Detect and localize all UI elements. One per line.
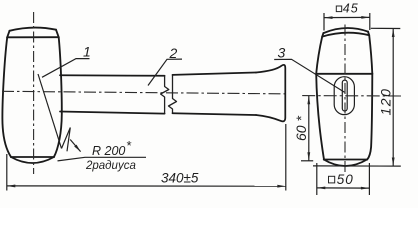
svg-text:2радиуса: 2радиуса (85, 160, 136, 172)
R200 radius leader touching bottom arc and text shelf (58, 157, 147, 161)
svg-text:1: 1 (83, 44, 91, 60)
svg-text:3: 3 (278, 45, 286, 61)
dimension square 45 (324, 13, 370, 31)
part label 3 leader with shelf (274, 59, 344, 92)
dimension square 45 arrowheads (324, 16, 333, 19)
part label 1 leader with shelf (42, 59, 90, 78)
svg-text:R 200: R 200 (92, 144, 125, 158)
R200 zigzag (62, 128, 71, 152)
svg-text:120: 120 (378, 88, 394, 116)
R200 arrow (70, 140, 80, 152)
handle outline left part (60, 75, 165, 113)
mallet head side view outline (2, 28, 61, 163)
dimension 60 star line (301, 96, 313, 161)
head vertical centerline (33, 12, 35, 174)
R200 leader long diagonal (38, 74, 62, 149)
dimension square 45 square symbol (336, 6, 341, 12)
horizontal centerline of handle axis (2, 91, 289, 94)
dimension 340±5 extension lines (7, 124, 286, 191)
dimension 120 extension lines (313, 28, 401, 166)
dimension square 50 arrowheads (317, 187, 326, 190)
svg-text:45: 45 (343, 2, 359, 16)
handle break line 1 (161, 76, 169, 114)
end view vertical centerline (344, 25, 346, 174)
svg-text:*: * (126, 138, 132, 153)
dimension 60 star arrowheads (307, 96, 310, 105)
handle end slot in end view (342, 80, 347, 111)
end view horizontal centerline (302, 95, 401, 97)
handle outline right part with flared knob end (173, 65, 286, 121)
part label 2 leader with shelf (148, 59, 182, 85)
svg-text:50: 50 (337, 172, 354, 187)
svg-text:2: 2 (169, 45, 178, 61)
handle hole oval in end view (334, 77, 354, 115)
dimension 120 arrowheads (392, 29, 395, 38)
dimension 340±5 arrowheads (7, 185, 16, 188)
sledge head end view outline (316, 28, 372, 166)
handle break line 2 (169, 75, 177, 113)
dimension square 50 square symbol (329, 176, 335, 183)
dimension square 50 (317, 163, 370, 195)
svg-text:60 *: 60 * (293, 116, 309, 141)
svg-text:340±5: 340±5 (161, 171, 199, 186)
